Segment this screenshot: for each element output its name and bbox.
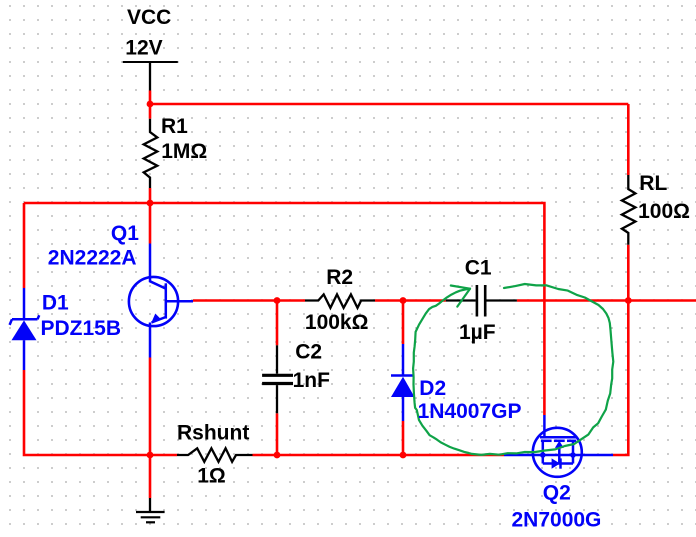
svg-text:C1: C1	[465, 256, 492, 279]
svg-text:Q1: Q1	[111, 222, 139, 245]
svg-text:2N2222A: 2N2222A	[48, 246, 137, 269]
svg-text:R2: R2	[326, 266, 353, 289]
svg-text:R1: R1	[161, 115, 188, 138]
svg-text:RL: RL	[639, 172, 667, 195]
svg-text:2N7000G: 2N7000G	[512, 508, 602, 531]
svg-text:Q2: Q2	[543, 481, 571, 504]
svg-text:1MΩ: 1MΩ	[161, 140, 207, 163]
svg-text:C2: C2	[295, 340, 322, 363]
svg-text:12V: 12V	[125, 36, 162, 59]
svg-text:100kΩ: 100kΩ	[305, 311, 369, 334]
svg-text:PDZ15B: PDZ15B	[41, 317, 122, 340]
svg-text:D1: D1	[42, 291, 69, 314]
svg-text:1µF: 1µF	[459, 321, 496, 344]
svg-text:D2: D2	[419, 377, 446, 400]
svg-text:Rshunt: Rshunt	[177, 421, 249, 444]
svg-text:1N4007GP: 1N4007GP	[418, 400, 522, 423]
svg-text:1nF: 1nF	[293, 369, 331, 392]
svg-text:1Ω: 1Ω	[197, 464, 226, 487]
svg-text:100Ω: 100Ω	[638, 200, 690, 223]
svg-text:VCC: VCC	[127, 6, 171, 29]
